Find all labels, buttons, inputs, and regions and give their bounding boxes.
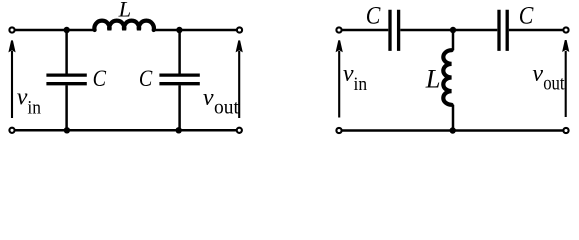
junction node: C1 bottom xyxy=(64,127,70,133)
svg-text:v: v xyxy=(343,61,354,87)
wire: C2 top lead xyxy=(178,30,181,74)
svg-text:L: L xyxy=(118,0,132,21)
svg-text:C: C xyxy=(139,66,153,92)
capacitor C1 plates xyxy=(46,75,86,84)
terminal: right circuit input top xyxy=(336,27,341,32)
wire: left circuit top rail, terminal to inductor xyxy=(12,29,95,32)
wire: inductor top lead (right circuit) xyxy=(452,30,455,50)
wire: C1 bottom lead xyxy=(65,85,68,130)
wire: C2 bottom lead xyxy=(178,85,181,130)
svg-text:out: out xyxy=(543,72,565,94)
svg-text:C: C xyxy=(519,0,534,29)
arrow: v_in (left circuit) xyxy=(8,40,15,118)
capacitor C4 plates (series, vertical) xyxy=(499,10,507,51)
svg-text:v: v xyxy=(17,85,28,111)
junction node: C1 top xyxy=(63,27,69,33)
terminal: left circuit input top xyxy=(9,27,14,32)
inductor L (right circuit, shunt) xyxy=(443,50,451,105)
wire: right circuit top rail, between capacitors xyxy=(400,29,497,32)
svg-text:v: v xyxy=(203,85,214,111)
svg-text:in: in xyxy=(354,74,368,95)
wire: right circuit top rail, C plate to right terminal xyxy=(509,29,566,32)
junction node: inductor top (right circuit) xyxy=(450,27,456,33)
terminal: right circuit output top xyxy=(563,27,568,32)
junction node: C2 top xyxy=(176,27,182,33)
terminal: left circuit output top xyxy=(237,27,242,32)
terminal: left circuit input bottom xyxy=(9,128,14,133)
wire: C1 top lead xyxy=(65,30,68,74)
terminal: left circuit output bottom xyxy=(237,128,242,133)
svg-text:C: C xyxy=(93,66,107,92)
terminal: right circuit input bottom xyxy=(336,128,341,133)
wire: right circuit top rail, left terminal to C plate xyxy=(339,29,388,32)
svg-text:v: v xyxy=(532,61,543,87)
arrow: v_out (left circuit) xyxy=(236,40,243,118)
junction node: C2 bottom xyxy=(176,127,182,133)
svg-text:L: L xyxy=(425,64,441,94)
junction node: inductor bottom (right circuit) xyxy=(450,127,456,133)
wire: left circuit bottom rail xyxy=(12,129,239,132)
arrow: v_out (right circuit) xyxy=(562,40,569,117)
capacitor C3 plates (series, vertical) xyxy=(390,10,399,51)
inductor L (left circuit, series) xyxy=(94,21,154,30)
svg-text:in: in xyxy=(27,98,41,119)
svg-text:out: out xyxy=(214,98,240,119)
svg-text:C: C xyxy=(366,0,381,29)
terminal: right circuit output bottom xyxy=(563,128,568,133)
wire: left circuit top rail, inductor to right terminal xyxy=(154,29,240,32)
wire: inductor bottom lead (right circuit) xyxy=(452,105,455,131)
capacitor C2 plates xyxy=(159,75,199,84)
wire: right circuit bottom rail xyxy=(339,129,566,132)
arrow: v_in (right circuit) xyxy=(336,40,343,117)
